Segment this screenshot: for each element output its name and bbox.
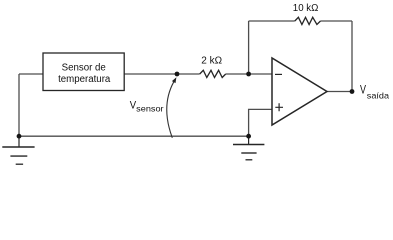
node: left rail junction	[17, 134, 22, 139]
curved arrow for Vsensor	[167, 82, 174, 138]
wire: bottom ground rail	[19, 135, 249, 137]
node: inverting input / feedback junction	[246, 72, 251, 77]
svg-text:sensor: sensor	[136, 103, 164, 113]
wire: resistor R1 to op-amp inverting input	[226, 73, 272, 75]
svg-text:10 kΩ: 10 kΩ	[293, 3, 319, 14]
resistor 2 kΩ (zigzag)	[200, 70, 226, 77]
wire: op-amp output to node	[327, 91, 352, 93]
wire: feedback top rail right segment	[321, 20, 353, 22]
ground (bottom-left)	[2, 136, 34, 164]
wire: feedback top rail left segment	[249, 20, 295, 22]
svg-text:saída: saída	[367, 91, 389, 101]
op-amp U1 triangle	[272, 58, 327, 125]
svg-text:Sensor de: Sensor de	[62, 63, 106, 74]
wire: feedback right vertical down to output node	[351, 21, 353, 92]
wire: left vertical down to bottom rail	[18, 74, 20, 136]
ground (below non-inverting input)	[233, 136, 264, 160]
arrowhead of Vsensor arrow	[172, 77, 177, 83]
node: ground rail junction	[246, 134, 251, 139]
wire: sensor output to resistor R1	[124, 73, 200, 75]
op-amp non-inverting input symbol (+)	[275, 103, 283, 111]
resistor 10 kΩ (zigzag)	[295, 17, 321, 24]
node: output Vsaida	[350, 89, 355, 94]
wire: left input wire from node to sensor box	[19, 73, 43, 75]
op-amp inverting input symbol (-)	[275, 73, 282, 75]
svg-text:V: V	[360, 84, 366, 96]
wire: non-inverting input to ground rail	[249, 109, 272, 136]
wire: feedback left vertical (node to top rail)	[248, 21, 250, 74]
svg-text:2 kΩ: 2 kΩ	[201, 55, 222, 66]
sensor box	[43, 53, 124, 91]
node: Vsensor measurement point	[175, 72, 180, 77]
svg-text:temperatura: temperatura	[58, 74, 111, 85]
